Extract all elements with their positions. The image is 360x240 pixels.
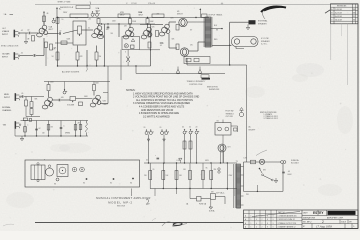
svg-text:SHT: SHT <box>349 221 352 223</box>
vib cap C14 <box>60 127 63 130</box>
triode V1A <box>37 25 53 37</box>
label b18 <box>229 175 234 177</box>
riser resistor R5b <box>56 18 59 24</box>
rectifier V8 <box>218 144 226 163</box>
svg-text:10: 10 <box>107 26 109 28</box>
resistor R7 <box>95 52 101 60</box>
B+ bus <box>144 162 237 164</box>
wire V7 out <box>100 103 108 105</box>
label b10 <box>160 43 165 45</box>
svg-text:2: 2 <box>262 219 263 221</box>
normal rail <box>44 81 110 83</box>
svg-text:20: 20 <box>153 169 155 171</box>
ellipse with X pot knob <box>98 34 104 39</box>
vib text <box>39 128 41 130</box>
label a26 <box>205 160 210 162</box>
svg-text:4: 4 <box>256 219 257 221</box>
svg-text:OUTPUT TRANS.: OUTPUT TRANS. <box>208 14 223 17</box>
label a24 <box>78 123 81 125</box>
smudge 8 <box>337 106 353 134</box>
svg-text:.1: .1 <box>27 125 28 127</box>
triode V3B <box>159 24 170 36</box>
wire grid ladder <box>26 97 32 109</box>
svg-text:MAGNATONE: MAGNATONE <box>303 217 316 220</box>
svg-text:270: 270 <box>190 45 193 47</box>
sheet bottom border under title block <box>244 228 359 230</box>
wire C8 on <box>24 96 44 98</box>
svg-text:NORMAL: NORMAL <box>2 106 11 109</box>
label a7 <box>124 26 128 28</box>
svg-text:.02: .02 <box>27 30 29 32</box>
svg-text:20: 20 <box>144 127 146 129</box>
hum balance box <box>201 75 209 78</box>
pen scratch far left <box>3 224 14 226</box>
label b14 <box>153 169 155 171</box>
svg-text:.02: .02 <box>21 53 23 55</box>
cap labels <box>144 127 198 130</box>
chassis power transformer <box>31 163 45 182</box>
svg-text:VOLUME: VOLUME <box>67 104 75 106</box>
drawing title line 3 <box>117 206 126 208</box>
wire into shield box <box>63 30 78 34</box>
smudge 4 <box>296 63 324 77</box>
svg-text:17 Aug 1958: 17 Aug 1958 <box>316 224 332 228</box>
chassis choke box <box>57 165 68 177</box>
plate resistor R27 <box>93 85 96 91</box>
cathode bus <box>136 72 225 74</box>
svg-text:350: 350 <box>214 169 217 171</box>
label b5 <box>62 19 64 21</box>
svg-text:GT: GT <box>190 30 192 32</box>
margin note lower <box>3 28 7 30</box>
svg-text:3: 3 <box>273 216 274 218</box>
wire riser x77 <box>77 46 79 67</box>
rail dropping resistor R32 <box>152 14 164 18</box>
wire R3 stub <box>43 22 45 26</box>
svg-text:8: 8 <box>267 219 268 221</box>
label a23 <box>63 126 64 128</box>
label a15 <box>21 93 23 95</box>
speaker terminal left <box>234 39 239 44</box>
svg-text:4: 4 <box>256 226 257 228</box>
plate resistor R24 <box>47 85 50 91</box>
svg-text:3: 3 <box>273 219 274 221</box>
T2 label <box>208 14 223 17</box>
volume label <box>67 104 75 106</box>
wire R10 up <box>129 18 131 19</box>
svg-text:3: 3 <box>273 226 274 228</box>
label 6EU7 with leader <box>62 65 88 74</box>
vib resistor R29 <box>47 125 50 131</box>
smudge 3 <box>318 184 342 196</box>
margin note upper <box>4 13 14 16</box>
svg-text:5TA+0B: 5TA+0B <box>148 2 156 5</box>
feedback wire vertical <box>229 22 231 65</box>
smudge 6 <box>245 86 265 98</box>
box bottom wire <box>140 49 161 50</box>
footswitch jack <box>226 108 244 119</box>
wire V2B plate <box>129 24 131 28</box>
bleeder resistor R42 <box>175 171 183 180</box>
svg-text:+40: +40 <box>88 19 91 21</box>
leg resistor Rb <box>189 141 192 149</box>
triode V7 <box>90 95 101 107</box>
decoupling cap C9 <box>63 89 67 94</box>
label b12 <box>190 45 193 47</box>
delta mark 3 <box>179 158 182 163</box>
rail label 250V <box>138 12 143 14</box>
label a21 <box>27 125 28 127</box>
filter cap C25 <box>189 129 193 134</box>
svg-text:EB 1958: EB 1958 <box>117 206 126 208</box>
svg-text:10-6-58: 10-6-58 <box>335 20 343 22</box>
svg-text:6EU7: 6EU7 <box>139 14 144 16</box>
chassis cap can A <box>72 167 77 172</box>
resistor R2 <box>50 44 58 50</box>
label b1 <box>21 30 23 32</box>
svg-text:2 SPKR 6X9 OVAL 32: 2 SPKR 6X9 OVAL 32 <box>278 218 295 221</box>
sheet bottom border left of title block <box>35 222 244 224</box>
bleeder resistor R43 <box>189 171 192 180</box>
resistor R16 <box>156 31 159 37</box>
label b20 <box>42 133 45 135</box>
label a22 <box>51 127 54 129</box>
label a1 <box>46 33 49 36</box>
ground bus y66 <box>57 65 151 66</box>
svg-text:.02: .02 <box>59 31 61 33</box>
line resistor R46 <box>197 197 202 202</box>
svg-text:.005: .005 <box>61 97 64 99</box>
svg-text:2: 2 <box>322 220 324 224</box>
svg-text:6EU7: 6EU7 <box>49 29 53 31</box>
vib riser 1 <box>24 121 26 137</box>
svg-text:.05: .05 <box>21 93 23 95</box>
svg-text:6V6: 6V6 <box>152 27 155 29</box>
wire J2 to C2 <box>20 55 34 57</box>
wire feedback join <box>186 58 188 65</box>
label a13 <box>214 39 218 41</box>
coupling capacitor C2 <box>33 54 36 57</box>
wire tone row <box>55 42 73 44</box>
T1 lead 3 <box>241 185 244 187</box>
wire riser x150 <box>150 24 152 66</box>
cap leg 4 <box>190 134 192 163</box>
wire R9 to rail <box>98 18 100 19</box>
label b13 <box>216 30 219 32</box>
wire riser x104 <box>103 24 105 66</box>
pilot lamp resistor R47 <box>251 160 256 164</box>
label b6 <box>88 19 91 21</box>
top margin note C <box>126 3 137 5</box>
wire riser x121 <box>120 50 122 81</box>
svg-text:.02: .02 <box>33 55 35 57</box>
svg-text:40: 40 <box>182 127 184 129</box>
vib resistor R28 <box>24 127 27 133</box>
delta mark 2 <box>163 139 166 141</box>
line cap C30 <box>282 171 292 176</box>
power switch SW2 <box>259 168 266 173</box>
cap leg 2 <box>163 135 165 164</box>
svg-text:SWITCH POSITIONS: SWITCH POSITIONS <box>260 112 277 114</box>
label a9 <box>157 14 160 16</box>
AC loop top wire <box>244 161 282 163</box>
label a14 <box>33 55 35 57</box>
label a20 <box>95 83 100 85</box>
wire C10 to pot <box>61 99 70 101</box>
speaker terminal right <box>251 39 256 44</box>
svg-text:10: 10 <box>62 19 64 21</box>
svg-text:8: 8 <box>267 223 268 225</box>
input jack J1 <box>14 30 20 38</box>
svg-text:CUT OFF: CUT OFF <box>226 116 233 118</box>
tremolo text <box>187 81 207 86</box>
svg-text:1 CHASSIS ASSEM 405: 1 CHASSIS ASSEM 405 <box>278 215 297 218</box>
label b19 <box>65 133 71 135</box>
svg-text:INPUT: INPUT <box>2 34 9 36</box>
svg-text:SHOWN OFF: SHOWN OFF <box>209 89 219 91</box>
svg-text:V4: V4 <box>130 183 132 185</box>
cap leg 5 <box>196 134 198 163</box>
filter cap C24 <box>183 129 187 134</box>
label b22 <box>246 194 249 196</box>
sheet top border <box>35 4 358 6</box>
V3A label <box>139 11 144 16</box>
sheet right border <box>357 5 359 229</box>
wire V3A plate <box>147 24 149 28</box>
input jack J3 <box>15 93 21 101</box>
label a18 <box>61 97 64 99</box>
chassis socket a <box>54 178 59 186</box>
wire R27 to rail <box>93 82 95 85</box>
label a17 <box>50 82 55 84</box>
svg-text:12508: 12508 <box>131 3 137 5</box>
title block frame and parts grid <box>244 210 359 229</box>
fuse label <box>186 203 207 206</box>
AC loop right wire <box>282 164 284 192</box>
wire V6 out <box>53 99 59 101</box>
svg-text:.05: .05 <box>288 171 290 173</box>
grid resistor R23 <box>30 109 33 115</box>
bleeder resistor R41 <box>162 171 169 180</box>
T1 lead 2 <box>241 174 244 176</box>
top margin note above <box>58 2 72 4</box>
trem network box <box>122 37 140 50</box>
svg-text:40: 40 <box>146 160 148 162</box>
cap delta label <box>155 155 159 159</box>
notes text block <box>126 89 200 118</box>
vib riser 2 <box>36 121 38 137</box>
svg-text:FUSE 2A: FUSE 2A <box>199 203 207 206</box>
label b9 <box>125 52 126 54</box>
label a4 <box>88 28 90 30</box>
triode V3A <box>141 27 152 39</box>
svg-text:4 CABINET ASSEM 12: 4 CABINET ASSEM 12 <box>278 225 296 228</box>
wire speaker bottom <box>236 47 244 49</box>
vib riser 3 <box>48 121 50 137</box>
smudge 2 <box>50 144 70 152</box>
svg-text:SLO-BLO: SLO-BLO <box>291 163 299 165</box>
resistor R13 <box>131 45 135 49</box>
grid resistor R18 <box>176 44 179 50</box>
parasitic stopper X <box>126 50 130 67</box>
coupling capacitor C8 <box>21 95 24 98</box>
label b11 <box>172 39 176 41</box>
smudge 1 <box>292 74 308 82</box>
line ground <box>209 200 213 210</box>
svg-text:3: 3 <box>273 223 274 225</box>
loop node <box>257 185 258 192</box>
wire riser x57 <box>57 18 59 67</box>
filter cap C21 <box>149 129 153 134</box>
svg-text:V2: V2 <box>83 183 85 185</box>
svg-text:CONTROL 250K: CONTROL 250K <box>189 84 203 86</box>
svg-text:6EU7: 6EU7 <box>96 11 101 13</box>
svg-text:3. TREMOLO OFF 2: 3. TREMOLO OFF 2 <box>264 118 279 120</box>
OT secondary tap <box>211 28 223 29</box>
wire riser x96 <box>96 46 98 67</box>
wire C1 to V1 grid <box>31 32 39 34</box>
resistor R12 <box>124 44 128 48</box>
bleeder leg 4 <box>189 163 191 189</box>
top margin tick mark <box>89 2 92 5</box>
output transformer T2 <box>204 17 212 47</box>
receptacle label <box>249 126 256 132</box>
svg-text:2. TREMOLO OFF 1: 2. TREMOLO OFF 1 <box>264 116 279 118</box>
label a25 <box>146 160 148 162</box>
svg-text:SHOW BY R+R: SHOW BY R+R <box>60 7 74 9</box>
chassis socket b <box>83 178 87 184</box>
triode V2B <box>123 27 134 39</box>
svg-text:MODEL MP-2: MODEL MP-2 <box>108 200 133 204</box>
power tube V5 <box>180 48 188 56</box>
handwritten check 2 <box>146 199 150 204</box>
resistor R10 <box>129 19 137 25</box>
plate resistor R9 <box>97 19 100 24</box>
vib top wire <box>21 120 89 122</box>
svg-text:CHANNEL: CHANNEL <box>2 109 12 112</box>
svg-text:AMPLIFIER CORP.: AMPLIFIER CORP. <box>327 217 344 220</box>
volume pot R8 <box>78 26 82 36</box>
ground line normal <box>26 106 40 117</box>
grid resistor R17 <box>176 25 179 31</box>
svg-text:POT: POT <box>75 18 78 20</box>
capacitor C7 <box>107 26 110 29</box>
svg-text:6 X 9 PM: 6 X 9 PM <box>261 38 269 40</box>
svg-text:117 V.A.C.: 117 V.A.C. <box>216 192 225 195</box>
wire riser x119 <box>118 24 120 37</box>
wire C2 to node <box>36 38 44 56</box>
node dot V1 plate <box>57 17 58 18</box>
svg-text:.5: .5 <box>63 126 64 128</box>
inspector pen mark <box>261 6 286 19</box>
bleeder resistor R44 <box>202 171 205 180</box>
vib riser 6 <box>80 121 82 137</box>
label b17 <box>214 169 217 171</box>
svg-text:5Y3: 5Y3 <box>228 147 231 149</box>
svg-text:3-07-58: 3-07-58 <box>335 13 343 15</box>
V2A plate lead <box>98 24 100 26</box>
heater winding circles <box>218 168 220 173</box>
rail dropping resistor R31 <box>118 14 130 18</box>
svg-text:.05: .05 <box>160 45 162 47</box>
svg-text:6.3V A: 6.3V A <box>209 209 215 212</box>
vib cap C11 <box>23 118 27 121</box>
svg-text:JW: JW <box>353 20 356 22</box>
svg-text:.01: .01 <box>88 28 90 30</box>
jack J2 label <box>2 53 10 59</box>
speaker label <box>261 38 270 46</box>
svg-text:6EU7: 6EU7 <box>120 14 125 16</box>
external speaker plug <box>249 20 256 24</box>
wire V3B out up <box>169 22 176 26</box>
svg-text:20: 20 <box>189 127 191 129</box>
bus stub c <box>176 189 178 195</box>
vib cap C13 <box>35 128 38 131</box>
svg-text:6V6GT: 6V6GT <box>177 13 184 15</box>
screen bus y24 <box>99 23 155 25</box>
wire V5 plate to OT <box>189 42 205 51</box>
filter cap C26 <box>195 129 199 134</box>
V7 labels <box>103 101 108 106</box>
wire V1A plate to C5 <box>47 33 59 35</box>
delta mark 1 <box>147 139 150 141</box>
svg-text:4: 4 <box>256 216 257 218</box>
cap leg 3 <box>184 134 186 163</box>
svg-text:INPUT: INPUT <box>4 97 11 99</box>
chassis triangle A <box>176 67 180 75</box>
receptacle cord loop <box>231 126 238 132</box>
label a28 <box>177 160 181 162</box>
tone capacitor C4 <box>61 41 67 44</box>
svg-text:ESTEY: ESTEY <box>313 211 324 215</box>
input jack J2 <box>14 52 20 60</box>
vib coil L1 <box>86 121 88 137</box>
wire mixer riser <box>103 66 108 104</box>
bleeder leg 1 <box>149 163 151 189</box>
fuse text <box>291 159 299 165</box>
parts list text <box>245 211 297 229</box>
top margin thin box <box>76 6 90 9</box>
label a19 <box>84 96 89 98</box>
label b16 <box>206 168 209 170</box>
power tube V4 <box>177 11 187 27</box>
wire V1A cathode to bus <box>45 48 47 67</box>
normal channel label <box>2 106 12 112</box>
ground below plug <box>246 24 250 29</box>
V2B label <box>120 12 125 16</box>
vib ground bus <box>15 135 88 136</box>
title block right section <box>302 210 358 229</box>
loop ground <box>274 178 278 183</box>
decoupling cap C3 <box>52 18 56 23</box>
svg-text:GUITAR: GUITAR <box>2 53 10 56</box>
speaker enclosure <box>232 37 259 47</box>
volume pot R25 <box>70 97 76 103</box>
svg-text:V.BASS: V.BASS <box>2 30 10 33</box>
wire R24 to rail <box>48 82 50 85</box>
line switch box SW1 <box>211 191 216 199</box>
vib ground <box>20 136 24 141</box>
svg-text:1: 1 <box>251 223 252 225</box>
V6 plate lead <box>48 91 50 97</box>
svg-text:+: + <box>155 155 156 157</box>
V1A plate lead <box>43 13 45 26</box>
label 63v bottom <box>209 209 215 212</box>
svg-text:1: 1 <box>251 226 252 228</box>
pen scribble <box>152 219 187 227</box>
AC loop bottom wire <box>244 190 284 192</box>
label a3 <box>67 39 72 41</box>
